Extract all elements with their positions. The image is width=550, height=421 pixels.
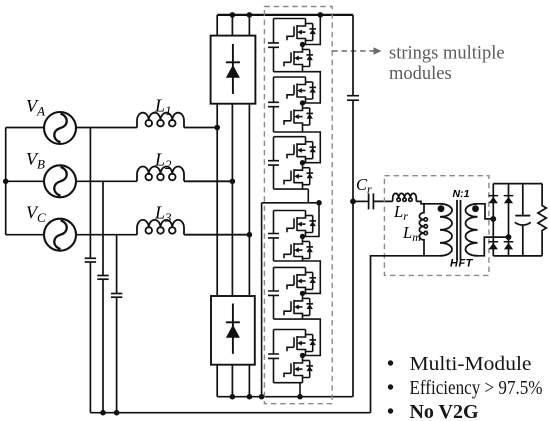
wire primary bottom return: [371, 256, 441, 413]
node neutral junction: [3, 179, 9, 185]
node secondary top junction: [490, 216, 496, 222]
svg-text:L3: L3: [154, 203, 172, 226]
svg-text:Cr: Cr: [356, 175, 372, 196]
inductor Lm: [419, 204, 427, 256]
svg-text:L2: L2: [154, 149, 172, 172]
wire lower stubs: [217, 365, 249, 397]
node bottom rail B: [230, 394, 236, 400]
inductor L2: [137, 166, 232, 181]
node resonant tap: [350, 199, 356, 205]
wire rectifier leg 1: [492, 184, 494, 256]
diode D3: [489, 241, 499, 249]
node L3 to riser: [247, 232, 253, 238]
svg-text:strings multiple: strings multiple: [389, 44, 505, 64]
transformer primary winding: [440, 204, 452, 256]
transformer secondary winding: [466, 204, 478, 256]
capacitor Cfa: [85, 257, 96, 259]
wire SM2 to SM3: [303, 132, 321, 163]
transformer core: [457, 200, 461, 260]
node cap B return: [100, 410, 106, 416]
node cap C return: [114, 410, 120, 416]
svg-text:Multi-Module: Multi-Module: [410, 353, 532, 375]
wire dc bottom rail: [217, 396, 352, 398]
node bottom rail C: [247, 394, 253, 400]
module SM3: [268, 137, 308, 189]
wire mid tap vertical to bottom rail: [261, 203, 263, 397]
module SM6: [268, 330, 306, 383]
wire secondary bottom out: [478, 237, 509, 256]
wire SM5 to SM6: [303, 319, 321, 355]
wire mid tap horizontal: [262, 202, 319, 204]
wire dc top rail: [217, 14, 353, 16]
capacitor output: [515, 216, 531, 226]
annotation arrow strings multiple modules: [332, 50, 375, 52]
wire rectifier leg 2: [508, 184, 510, 256]
dashed enclosure strings of modules: [264, 7, 332, 404]
node secondary dot: [472, 205, 479, 212]
wire SM1 to SM2: [303, 72, 321, 103]
wire cap branch A: [89, 128, 91, 259]
wire cap branch B: [102, 181, 104, 275]
wire output cap leg: [522, 184, 524, 256]
wire cap branch C: [116, 235, 118, 294]
source VA: [44, 112, 76, 144]
svg-text:Lr: Lr: [393, 202, 408, 223]
inductor Lr: [393, 193, 417, 201]
node secondary bottom junction: [506, 234, 512, 240]
node mid tap bottom: [259, 394, 265, 400]
node top rail C: [247, 12, 253, 18]
module SM5: [268, 267, 306, 319]
module SM1: [268, 19, 306, 72]
wire bottom return rail: [90, 412, 370, 414]
module SM4: [268, 211, 306, 262]
svg-text:Lm: Lm: [402, 223, 421, 244]
wire output top rail: [493, 183, 542, 185]
svg-text:N:1: N:1: [453, 188, 470, 200]
wire left neutral bus: [5, 128, 7, 235]
wire Lr to transformer: [416, 201, 440, 203]
wire rail to SM1 midpoint: [306, 15, 321, 45]
resistor load: [538, 184, 546, 256]
node L1 to riser: [214, 125, 220, 131]
svg-text:No V2G: No V2G: [410, 401, 479, 421]
svg-text:modules: modules: [389, 64, 452, 84]
wire phase A row: [6, 127, 137, 129]
wire phase B riser: [231, 15, 233, 296]
diode block lower: [211, 296, 255, 365]
source VB: [44, 165, 76, 197]
wire SM3 bottom to mid tap: [307, 189, 309, 203]
wire output bottom rail: [493, 255, 542, 257]
wire phase B row: [6, 180, 137, 182]
inductor L1: [137, 113, 217, 128]
source VC: [44, 219, 76, 251]
wire SM4 to SM5: [303, 261, 321, 293]
svg-text:Efficiency > 97.5%: Efficiency > 97.5%: [410, 377, 543, 399]
diode D1: [489, 195, 499, 203]
capacitor dc blocking: [347, 96, 359, 101]
wire mid tap to SM4 midpoint: [306, 203, 320, 237]
wire SM6 to bottom rail: [299, 383, 301, 397]
wire phase C row: [6, 234, 137, 236]
node top rail B: [230, 12, 236, 18]
diode D2: [504, 195, 514, 203]
capacitor Cfb: [97, 275, 108, 277]
capacitor Cfc: [111, 293, 122, 295]
node mid tap: [316, 200, 322, 206]
svg-text:HFT: HFT: [450, 258, 474, 270]
node L2 to riser: [230, 179, 236, 185]
capacitor Cr: [353, 193, 393, 209]
wire right bus upper: [352, 15, 354, 96]
wire phase A riser: [216, 15, 218, 296]
svg-text:VA: VA: [26, 96, 45, 119]
diode block upper: [211, 36, 256, 104]
svg-text:VC: VC: [26, 203, 46, 226]
inductor L3: [137, 220, 249, 235]
node primary dot: [438, 205, 445, 212]
module SM2: [268, 77, 306, 132]
wire phase C riser: [248, 15, 250, 296]
diode D4: [504, 241, 514, 249]
svg-text:L1: L1: [154, 96, 172, 119]
svg-text:VB: VB: [26, 149, 45, 172]
wire right bus lower: [352, 100, 354, 397]
wire secondary top out: [478, 204, 494, 219]
